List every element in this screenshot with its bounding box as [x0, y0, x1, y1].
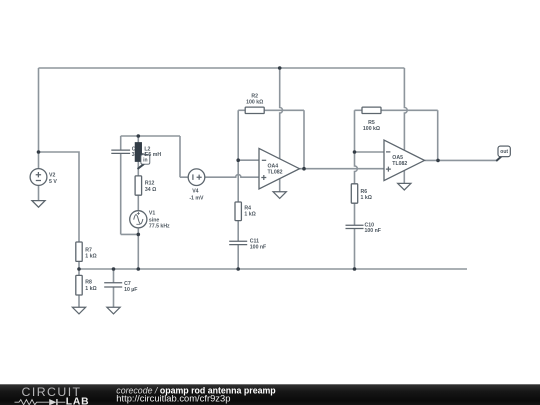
wire OA5 minus input [355, 151, 385, 153]
svg-text:1 kΩ: 1 kΩ [85, 253, 96, 259]
source V2 [30, 169, 47, 186]
svg-text:34 Ω: 34 Ω [145, 187, 156, 193]
V1 minus sign [136, 223, 140, 225]
resistor R8 [76, 275, 82, 295]
resistor R6 [351, 184, 357, 203]
OA5 plus sign [386, 167, 391, 172]
wire tank top [121, 136, 189, 177]
source V1 [130, 211, 147, 228]
svg-text:V2: V2 [49, 173, 55, 179]
node OA5 output junction [436, 159, 440, 163]
wire minus node vertical [237, 110, 239, 202]
flag out [497, 146, 511, 160]
wire V2 stem [38, 68, 40, 169]
node R7 R8 rail junction [77, 267, 81, 271]
svg-text:http://circuitlab.com/cfr9z3p: http://circuitlab.com/cfr9z3p [116, 393, 230, 404]
wire R5 left [355, 109, 363, 111]
wire tank left branch [121, 136, 139, 234]
node OA5 inverting input junction [353, 150, 357, 154]
V4 bar sign [192, 174, 194, 180]
wire R2 left [238, 109, 245, 111]
svg-text:1.5 mH: 1.5 mH [144, 152, 161, 158]
wire branch to R7 [39, 152, 80, 242]
svg-text:1 kΩ: 1 kΩ [361, 195, 372, 201]
svg-text:10 µF: 10 µF [124, 287, 137, 293]
resistor R5 [362, 107, 381, 113]
wire OA5 minus node vertical with hop [355, 110, 358, 184]
node V1 rail junction [137, 267, 141, 271]
flag in [138, 155, 150, 169]
svg-text:TL082: TL082 [392, 161, 407, 167]
ground C7 [107, 307, 120, 314]
svg-text:100 kΩ: 100 kΩ [246, 100, 263, 106]
node top rail to OA4 V+ junction [278, 66, 282, 70]
svg-text:C7: C7 [124, 281, 131, 287]
OA4 plus sign [261, 175, 266, 180]
capacitor C9 plates [111, 150, 130, 153]
svg-text:1 kΩ: 1 kΩ [85, 286, 96, 292]
wire OA4 Vminus stub [279, 178, 281, 192]
wire OA4 out to OA5 plus [300, 168, 385, 170]
V4 plus sign [197, 175, 202, 180]
wire OA5 Vplus with hop [404, 68, 407, 150]
capacitor C10 plates [346, 225, 364, 228]
svg-text:R6: R6 [361, 189, 368, 195]
wire R2 right [264, 110, 304, 168]
svg-text:V1: V1 [149, 210, 155, 216]
resistor R2 [245, 107, 264, 113]
V2 minus sign [36, 180, 41, 182]
V1 plus sign [137, 212, 140, 215]
wire R6 to C10 [354, 203, 356, 269]
svg-text:100 nF: 100 nF [365, 228, 381, 234]
wire R8 stubs [78, 269, 80, 307]
svg-text:77.5 kHz: 77.5 kHz [149, 224, 170, 230]
logo resistor zigzag [15, 400, 49, 405]
resistor R7 [76, 242, 82, 261]
svg-text:LAB: LAB [66, 397, 90, 405]
svg-text:sine: sine [149, 217, 159, 223]
ground V2 [32, 201, 45, 208]
svg-text:100 nF: 100 nF [250, 244, 266, 250]
wire top rail [39, 67, 405, 69]
wire R4 to C11 [237, 221, 239, 270]
ground OA5 [398, 183, 411, 190]
svg-text:out: out [500, 149, 508, 155]
wire C7 stubs [113, 269, 115, 307]
svg-text:TL082: TL082 [268, 170, 283, 176]
node C7 rail junction [112, 267, 116, 271]
wire ground rail [79, 268, 467, 270]
source V4 [188, 169, 205, 186]
node OA4 output junction [302, 167, 306, 171]
svg-text:1 kΩ: 1 kΩ [244, 212, 255, 218]
node tank top junction [137, 134, 141, 138]
node OA4 inverting input junction [236, 158, 240, 162]
op-amp OA4 [259, 148, 300, 189]
svg-text:R12: R12 [145, 180, 155, 186]
svg-text:V4: V4 [192, 188, 198, 194]
wire tank middle branch [137, 136, 139, 269]
svg-text:R2: R2 [251, 94, 258, 100]
resistor R12 [135, 176, 142, 195]
wire OA4 minus input [238, 159, 259, 161]
wire R5 right [381, 110, 438, 160]
svg-text:OA4: OA4 [268, 163, 279, 169]
node V1 bottom junction [137, 233, 141, 237]
wire V4 to opamp plus with hop [205, 175, 259, 178]
ground OA4 [273, 192, 286, 199]
svg-text:R7: R7 [85, 247, 92, 253]
svg-text:-1 mV: -1 mV [189, 195, 204, 201]
logo diode [49, 399, 56, 405]
node C11 rail junction [236, 267, 240, 271]
svg-text:5 V: 5 V [49, 179, 57, 185]
ground R8 [72, 307, 85, 314]
wire R7 to rail [78, 262, 80, 270]
inductor L2 [135, 142, 142, 161]
wire V2 ground stub [38, 185, 40, 200]
V2 plus sign [36, 172, 41, 177]
capacitor C7 plates [104, 283, 122, 287]
OA5 minus sign [386, 151, 390, 153]
node V2 branch junction [37, 150, 41, 154]
node C10 rail junction [353, 267, 357, 271]
capacitor C11 plates [229, 241, 247, 244]
op-amp OA5 [384, 140, 425, 181]
wire OA5 Vminus stub [403, 171, 405, 184]
svg-text:OA5: OA5 [392, 155, 403, 161]
wire OA4 Vplus with hop [280, 68, 283, 159]
svg-text:R5: R5 [368, 120, 375, 126]
OA4 minus sign [262, 159, 266, 161]
svg-text:100 kΩ: 100 kΩ [363, 126, 380, 132]
V1 sine symbol [134, 215, 143, 224]
svg-text:R8: R8 [85, 279, 92, 285]
wire OA5 output [425, 159, 498, 161]
resistor R4 [235, 202, 241, 221]
footer bar [0, 384, 540, 405]
